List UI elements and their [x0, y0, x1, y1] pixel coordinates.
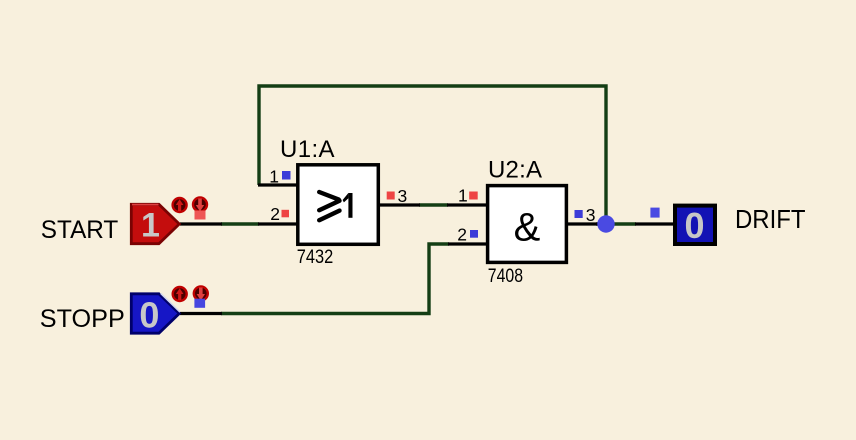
svg-text:START: START — [41, 216, 119, 244]
svg-text:U1:A: U1:A — [280, 136, 335, 163]
pin state square START terminal — [195, 211, 206, 220]
wire U2 pin 3 to DRIFT terminal — [596, 222, 636, 225]
pin number 3 of U2 — [586, 205, 596, 225]
wire STOPP to U2 pin 2 — [221, 244, 449, 314]
svg-text:1: 1 — [141, 206, 160, 244]
svg-text:2: 2 — [270, 204, 280, 224]
pin stub U2 pin 2 — [448, 242, 488, 245]
pin stub U2 pin 3 — [567, 222, 598, 225]
wire U1 pin 3 to U2 pin 1 — [419, 203, 448, 206]
svg-text:1: 1 — [458, 185, 468, 205]
label U1:A — [280, 136, 335, 163]
label U2:A — [488, 157, 542, 184]
pin number 1 of U2 — [458, 185, 468, 205]
pin stub DRIFT terminal — [635, 222, 675, 225]
value 7408 — [488, 266, 523, 287]
pin state square U2 pin 2 — [470, 230, 478, 238]
or-gate U1 body — [298, 165, 379, 245]
label DRIFT — [735, 206, 806, 234]
label STOPP — [40, 305, 125, 333]
svg-text:0: 0 — [684, 205, 704, 246]
svg-text:DRIFT: DRIFT — [735, 206, 806, 234]
pin state square STOPP terminal — [194, 299, 205, 308]
svg-text:1: 1 — [269, 167, 279, 187]
junction node DRIFT net — [597, 215, 614, 232]
pin number 2 of U2 — [457, 225, 467, 245]
pin state square U1 pin 3 — [387, 192, 395, 200]
logic input terminal START (state 1) — [131, 204, 179, 244]
pin stub U1 pin 3 — [379, 203, 420, 206]
svg-text:2: 2 — [457, 225, 467, 245]
pin state square U1 pin 2 — [282, 210, 290, 218]
logic input terminal STOPP (state 0) — [131, 293, 180, 335]
toggle button up STOPP — [173, 287, 187, 301]
or-gate U1 symbol &#8805;1 — [319, 192, 339, 220]
logic probe DRIFT (state 0) — [675, 205, 715, 246]
and-gate U2 body — [488, 186, 567, 263]
toggle button up START — [173, 198, 187, 212]
pin state square U2 pin 3 — [575, 210, 583, 218]
value 7432 — [297, 246, 334, 268]
pin number 3 of U1 — [398, 186, 408, 206]
pin stub U2 pin 1 — [447, 203, 488, 206]
svg-text:3: 3 — [586, 205, 596, 225]
svg-text:7432: 7432 — [297, 246, 334, 268]
pin stub START terminal — [180, 222, 222, 225]
svg-text:&: & — [514, 206, 541, 250]
pin state square DRIFT terminal — [650, 208, 659, 218]
pin number 2 of U1 — [270, 204, 280, 224]
svg-text:0: 0 — [139, 295, 159, 336]
pin state square U1 pin 1 — [282, 171, 291, 180]
pin number 1 of U1 — [269, 167, 279, 187]
pin stub U1 pin 2 — [258, 222, 299, 225]
or-gate U1 symbol digit 1 — [343, 193, 353, 218]
and-gate U2 symbol & — [514, 206, 541, 250]
wire START to U1 pin 2 — [221, 222, 259, 225]
toggle button down STOPP — [194, 287, 208, 301]
svg-text:STOPP: STOPP — [40, 305, 125, 333]
toggle button down START — [193, 198, 207, 212]
wire feedback net DRIFT to U1 pin 1 — [259, 86, 606, 224]
svg-text:U2:A: U2:A — [488, 157, 542, 184]
pin stub STOPP terminal — [180, 312, 222, 315]
label START — [41, 216, 119, 244]
svg-text:7408: 7408 — [488, 266, 523, 287]
pin state square U2 pin 1 — [469, 192, 478, 200]
svg-text:3: 3 — [398, 186, 408, 206]
pin stub U1 pin 1 — [258, 183, 299, 186]
